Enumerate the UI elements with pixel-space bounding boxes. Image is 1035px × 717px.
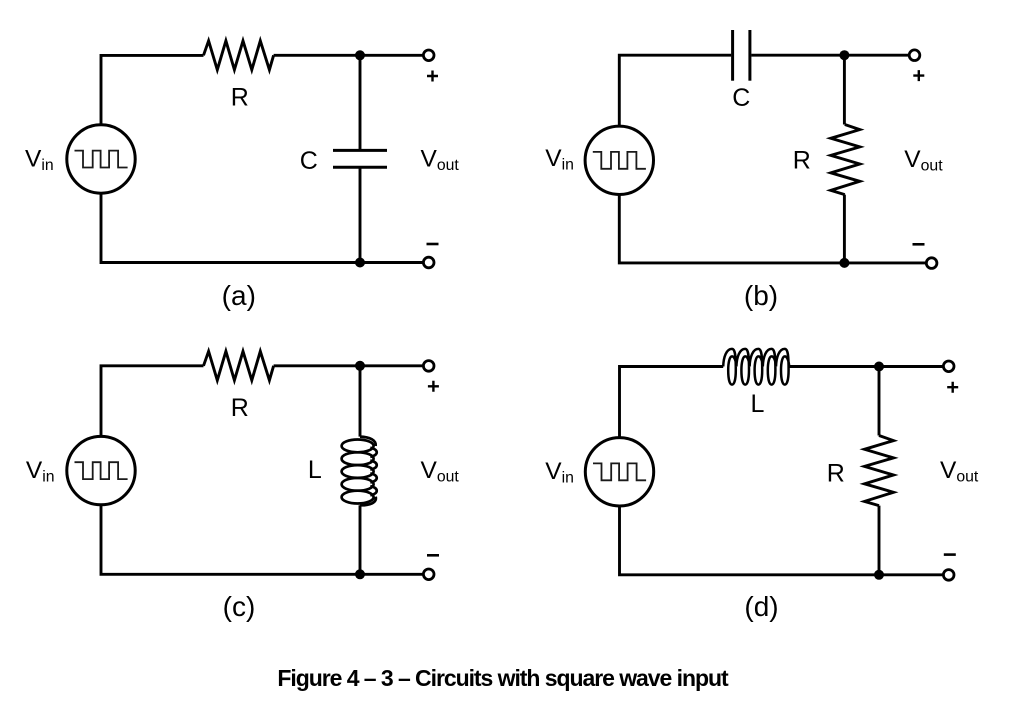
resistor R (c) [204,351,274,380]
node (d) top junction [874,362,884,372]
svg-text:Figure 4 – 3 – Circuits with s: Figure 4 – 3 – Circuits with square wave… [277,665,729,691]
inductor L (c) top hook [360,437,376,446]
resistor R (b) [831,125,860,195]
node (c) top junction [355,361,365,371]
svg-text:R: R [231,394,249,422]
inductor L (c) connector 2 [370,461,376,470]
svg-text:(c): (c) [223,591,256,622]
capacitor C (a) top plate [333,149,387,152]
wire: (c) inductor to bottom node [359,505,362,574]
wire: (d) bottom rail [620,505,944,574]
inductor L (c) bottom hook [360,497,376,506]
wire: (b) bottom rail [619,194,926,263]
minus sign (c) [427,554,439,557]
svg-text:(b): (b) [744,280,778,311]
svg-text:L: L [308,456,322,484]
capacitor C (a) bottom plate [333,166,387,169]
minus sign (b) [913,243,925,246]
plus sign (b) [913,70,924,81]
plus sign (a) [427,71,438,82]
inductor L (c) loop 1 [342,440,374,453]
source Vin (b) [585,126,653,194]
wire: (c) node down to inductor [359,366,362,437]
wire: (d) top from source to inductor [620,367,724,439]
svg-text:L: L [751,390,765,418]
terminal (c) - output [423,569,434,580]
wire: (a) resistor to node and + terminal [274,54,424,57]
inductor L (c) connector 3 [370,473,376,482]
wire: (a) bottom rail [101,193,424,263]
terminal (b) + output [909,50,920,61]
node A (a) top junction [355,50,365,60]
inductor L (c) connector 4 [370,486,376,495]
wire: (a) node down to capacitor [359,55,362,150]
plus sign (d) [947,382,958,393]
wire: (b) node down to resistor [843,55,846,124]
node (d) bottom junction [874,570,884,580]
resistor R (a) [204,41,274,70]
inductor L (c) loop 4 [342,478,374,491]
inductor L (c) loop 2 [342,452,374,465]
wire: (d) inductor to node and + terminal [789,365,944,368]
wire: (c) resistor to node and + terminal [274,364,424,367]
node (b) bottom junction [839,258,849,268]
node (a) bottom junction [355,258,365,268]
minus sign (a) [427,243,439,246]
wire: (c) bottom rail [101,504,424,574]
inductor L (c) connector 1 [370,448,376,457]
wire: (a) top from source to resistor [101,55,204,126]
capacitor C (b) right plate [748,30,751,81]
wire: (d) node down to resistor [878,367,881,436]
svg-text:R: R [827,460,845,488]
wire: (a) capacitor to bottom node [359,167,362,262]
svg-text:R: R [793,147,811,175]
plus sign (c) [428,381,439,392]
inductor L (c) loop 3 [342,465,374,478]
capacitor C (b) left plate [731,30,734,81]
inductor L (c) loop 5 [342,491,374,504]
wire: (b) resistor to bottom node [843,195,846,263]
terminal (a) - output [423,257,434,268]
terminal (a) + output [423,50,434,61]
inductor L (d) coil [723,349,789,385]
svg-text:(a): (a) [222,280,256,311]
resistor R (d) [865,436,894,506]
source Vin (c) [67,436,135,504]
wire: (d) resistor to bottom node [878,506,881,575]
wire: (c) top from source to resistor [101,366,204,438]
minus sign (d) [944,553,956,556]
terminal (d) - output [943,570,954,581]
terminal (b) - output [926,258,937,269]
terminal (c) + output [423,361,434,372]
node (c) bottom junction [355,569,365,579]
source Vin (a) [67,125,135,193]
svg-text:C: C [732,84,750,112]
svg-text:C: C [300,147,318,175]
source Vin (d) [585,438,653,506]
terminal (d) + output [943,361,954,372]
wire: (b) top from source to capacitor [619,55,731,127]
node (b) top junction [839,50,849,60]
svg-text:R: R [231,83,249,111]
svg-text:(d): (d) [744,591,778,622]
wire: (b) capacitor to node and + terminal [751,54,909,57]
